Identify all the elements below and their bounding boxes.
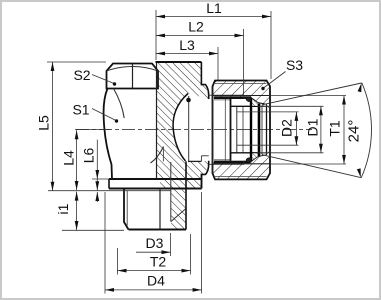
dimension D3 [136,251,171,253]
svg-text:L4: L4 [61,150,77,166]
dome bottom-right arc [151,147,164,164]
stud bottom face [129,229,187,231]
nut facet line top [213,95,271,97]
cone line upper [262,83,362,105]
cone arc [361,83,371,178]
svg-text:D1: D1 [305,118,321,136]
svg-text:L5: L5 [36,115,52,131]
flange left edge [108,179,110,189]
tube inner line 2 [242,106,244,153]
body lower notch [188,160,201,162]
nut bottom chamfer line [215,175,267,177]
tube OD top [231,105,258,107]
flange right edge [201,174,203,188]
nut thread inner line [224,99,226,161]
dimension L5 [52,62,54,191]
centerline of side port [76,129,312,131]
nut top chamfer line [215,82,267,84]
stud right edge [185,161,187,229]
ext line left datum [155,10,157,60]
engaged thread top (dark) [214,96,251,99]
ferrule upper (hatched) [251,97,267,106]
cone arrow upper [358,83,362,92]
ext line D1 top [258,105,324,107]
svg-text:T2: T2 [150,254,167,270]
ferrule hook top [246,97,251,101]
svg-text:T1: T1 [327,120,343,137]
tube OD bottom [231,152,258,154]
nut S3 lower cross-section hatch [213,155,271,180]
stud bore bottom chamfer [171,209,186,222]
ext line D2 top [237,111,299,113]
cone arrow lower [357,168,361,177]
svg-text:L2: L2 [188,19,204,35]
stud bore wall inner line [170,162,172,222]
nut thread root top [214,99,231,101]
stud thread minor line [126,191,128,226]
dome S1 left silhouette [104,89,112,180]
dome bottom edge line [162,147,164,162]
body top face [156,61,202,63]
nut S3 outline [213,81,271,180]
ext line T2 right [190,234,192,275]
dimension L4 [76,130,78,190]
dimension D4 [105,289,202,291]
nut left face [212,86,214,173]
nut bore mouth chamfer top [267,105,271,108]
body section left edge [156,62,158,179]
dimension D1 [320,106,322,153]
ext line D4 left [104,192,106,294]
bore cavity edge [173,94,188,162]
bore cavity (white) [173,94,209,162]
cone edge 2 [261,105,263,155]
L6 outside arrow [96,192,98,202]
ext line D1 bottom [258,152,324,154]
ext line stud end [62,229,124,231]
dimension L2 [156,35,244,37]
nut S3 upper cross-section hatch [213,81,271,106]
body top step [201,62,208,99]
ext line L3 right [217,47,219,80]
dimension L6 [96,140,98,191]
dimension T1 [343,96,345,165]
o-ring dot [186,98,191,103]
svg-text:L1: L1 [206,2,222,16]
ext line flange top left [92,178,109,180]
nut facet line bottom [213,163,271,165]
dimension T2 [118,270,191,272]
ext line D4 right [201,192,203,294]
engaged thread bottom (dark) [214,161,251,164]
ext line centerline left [75,129,110,131]
nut thread root bottom [214,159,231,161]
stud left edge [124,189,129,230]
svg-text:S1: S1 [72,102,89,118]
ext line T1 bottom [270,163,346,165]
body cross-section hatch [157,62,209,230]
ext line D2 bottom [237,144,299,146]
svg-text:L3: L3 [179,37,195,53]
svg-text:S2: S2 [73,67,90,83]
body bottom step [201,161,208,189]
ext line L2 right [243,29,245,96]
tube end face [230,99,232,161]
ext line shoulder [48,190,171,192]
cone line lower [262,155,361,178]
bore cavity right edge [188,96,190,161]
nut bore mouth edge [266,105,268,154]
ext line hex top [47,61,106,63]
svg-text:L6: L6 [81,148,97,164]
ferrule front edge [250,98,252,162]
ext line T2 left [117,248,119,275]
dimension D2 [295,112,297,145]
stud section boundary [159,189,161,230]
svg-text:i1: i1 [55,203,71,214]
svg-text:24°: 24° [346,120,363,143]
hex nut S2 [107,64,159,89]
boss thread root bottom [209,163,244,165]
dimension i1 [76,192,78,230]
ext line T1 top [270,95,346,97]
boss thread root top [209,94,244,96]
flange top face [109,178,202,180]
svg-text:S3: S3 [286,57,303,73]
ext line L1 right [270,11,272,79]
nut bore mouth chamfer bottom [267,151,271,154]
ferrule lower (hatched) [251,153,267,162]
thread end line [243,95,245,99]
svg-text:D3: D3 [146,235,164,251]
cone edge 1 [258,104,261,157]
dome S1 inner curve [114,89,125,119]
flange bottom face [109,188,202,190]
svg-text:D2: D2 [279,119,295,137]
ferrule hook bottom [246,158,251,162]
dimension L3 [156,53,218,55]
ext line D3 right [170,233,172,256]
tube inner line [236,106,238,153]
svg-text:D4: D4 [147,273,165,289]
dimension L1 [156,16,271,18]
